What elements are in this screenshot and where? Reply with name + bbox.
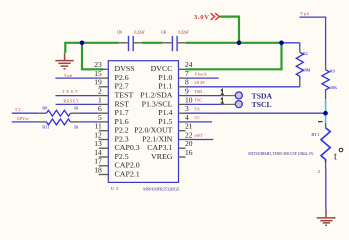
junction 3.0V rail bbox=[237, 41, 242, 46]
wire DVCC pin 24 green bbox=[186, 43, 282, 70]
svg-text:U3: U3 bbox=[111, 186, 119, 191]
wire main VCC rail segment left bbox=[65, 42, 118, 44]
pin stubs right side bbox=[179, 69, 186, 157]
svg-text:24: 24 bbox=[185, 60, 193, 69]
capacitor C10 leads bbox=[119, 42, 128, 44]
wire RT1 to ground bbox=[325, 168, 327, 209]
svg-text:6: 6 bbox=[98, 104, 102, 113]
wire pin 8 to R2 bbox=[186, 86, 300, 88]
svg-text:RESET: RESET bbox=[64, 99, 80, 103]
svg-text:P1.2/SDA: P1.2/SDA bbox=[140, 91, 173, 100]
thermistor RT1 bbox=[321, 123, 330, 168]
svg-text:TSD: TSD bbox=[195, 90, 203, 94]
svg-text:2848: 2848 bbox=[195, 81, 205, 85]
svg-text:P1.5: P1.5 bbox=[158, 117, 173, 126]
junction VCC to DVCC corner bbox=[279, 41, 284, 46]
svg-text:GPVcc: GPVcc bbox=[17, 117, 29, 121]
svg-text:P1.1: P1.1 bbox=[158, 82, 173, 91]
svg-text:CAP3.1: CAP3.1 bbox=[147, 143, 173, 152]
svg-text:RT1: RT1 bbox=[311, 132, 319, 137]
pin stubs left side bbox=[99, 69, 109, 174]
wire cyan net R9 to thermistor bbox=[325, 99, 327, 123]
wire pin 22 stub net bbox=[186, 139, 214, 141]
svg-text:R11: R11 bbox=[42, 125, 49, 130]
svg-text:P2.0/XOUT: P2.0/XOUT bbox=[134, 126, 173, 135]
svg-text:23: 23 bbox=[94, 60, 102, 69]
svg-text:16: 16 bbox=[185, 148, 193, 157]
junction DVSS branch bbox=[80, 41, 85, 46]
svg-text:10M: 10M bbox=[303, 68, 311, 73]
svg-text:MSP430FR2532RGE: MSP430FR2532RGE bbox=[143, 186, 180, 191]
svg-text:20K: 20K bbox=[330, 85, 338, 90]
pin names right column bbox=[134, 64, 173, 161]
label 1 connector TSCL bbox=[221, 98, 224, 103]
svg-text:CAP0.3: CAP0.3 bbox=[115, 143, 141, 152]
svg-text:C10: C10 bbox=[117, 29, 122, 34]
svg-text:11: 11 bbox=[95, 122, 102, 131]
svg-text:P1.3/SCL: P1.3/SCL bbox=[142, 99, 173, 108]
wire VCC rail drop to ground elbow bbox=[64, 42, 66, 53]
svg-text:R9: R9 bbox=[330, 69, 336, 74]
svg-text:P2.1/XIN: P2.1/XIN bbox=[142, 134, 173, 143]
pin marker 1 of RT1 bbox=[318, 121, 323, 123]
svg-text:TSCL: TSCL bbox=[252, 101, 272, 109]
wire GPVcc to R11 bbox=[12, 121, 39, 123]
svg-text:CAP2.1: CAP2.1 bbox=[115, 169, 141, 178]
svg-text:13: 13 bbox=[94, 139, 102, 148]
wire DVSS branch vertical bbox=[82, 43, 103, 70]
power port 3.0V chevron symbol bbox=[211, 13, 220, 20]
svg-text:t: t bbox=[334, 152, 337, 163]
svg-text:2: 2 bbox=[98, 87, 102, 96]
capacitor C10 plates bbox=[128, 36, 130, 51]
svg-text:0.22uF: 0.22uF bbox=[178, 29, 189, 34]
capacitor C36 plates bbox=[171, 36, 173, 51]
ground GND bottom right bbox=[317, 209, 336, 225]
wire 3.0V to main rail bbox=[220, 17, 239, 43]
wire T2 to R8 bbox=[12, 112, 39, 114]
svg-text:T2: T2 bbox=[15, 108, 21, 112]
svg-text:4: 4 bbox=[185, 113, 189, 122]
svg-text:5: 5 bbox=[98, 113, 102, 122]
svg-text:12: 12 bbox=[94, 130, 102, 139]
resistor R9 20K bbox=[322, 64, 329, 99]
svg-text:10: 10 bbox=[185, 95, 193, 104]
svg-text:1K: 1K bbox=[74, 125, 80, 130]
svg-text:1K: 1K bbox=[74, 106, 80, 111]
svg-text:P1.6: P1.6 bbox=[115, 117, 130, 126]
wire net TEST to pin 2 bbox=[55, 95, 98, 97]
wire pin 3 TS net to thermistor bbox=[186, 112, 326, 114]
svg-text:DVCC: DVCC bbox=[151, 64, 173, 73]
svg-text:14: 14 bbox=[94, 148, 102, 157]
junction TS net at thermistor bbox=[323, 111, 328, 116]
svg-text:P2.2: P2.2 bbox=[115, 126, 130, 135]
op-amp U3 MSP430 IC body bbox=[108, 61, 178, 183]
ground GND top-left bbox=[55, 53, 73, 69]
svg-text:VREG: VREG bbox=[151, 152, 173, 161]
svg-text:TSDA: TSDA bbox=[252, 93, 272, 101]
svg-text:P2.7: P2.7 bbox=[115, 82, 130, 91]
svg-text:15: 15 bbox=[94, 69, 102, 78]
svg-text:P1.0: P1.0 bbox=[158, 73, 173, 82]
svg-text:P2.5: P2.5 bbox=[115, 152, 130, 161]
svg-text:P2.6: P2.6 bbox=[115, 73, 130, 82]
wire VCC to R2 bbox=[282, 42, 300, 44]
svg-text:8: 8 bbox=[185, 78, 189, 87]
pin numbers left bbox=[94, 60, 102, 174]
wire net RESET to pin 1 bbox=[56, 103, 99, 105]
pin names left column bbox=[115, 64, 141, 178]
wire pin 4 stub net bbox=[186, 121, 213, 123]
wire pin 7 stub net bbox=[186, 77, 219, 79]
wire VCC rail right of C36 bbox=[186, 42, 282, 44]
svg-text:P1.4: P1.4 bbox=[158, 108, 173, 117]
svg-text:19: 19 bbox=[94, 78, 102, 87]
svg-text:1: 1 bbox=[98, 95, 102, 104]
svg-text:TS: TS bbox=[195, 108, 200, 112]
svg-text:CC: CC bbox=[195, 116, 201, 120]
svg-text:2: 2 bbox=[318, 169, 320, 174]
svg-text:9: 9 bbox=[185, 87, 189, 96]
wire VCC rail between capacitors bbox=[142, 42, 163, 44]
svg-text:0.22uF: 0.22uF bbox=[134, 29, 145, 34]
pin numbers right bbox=[185, 60, 193, 157]
connector pin 1 stub TSDA bbox=[221, 95, 235, 97]
wire Vpb to R9 bbox=[299, 17, 325, 64]
svg-text:TEST: TEST bbox=[115, 91, 134, 100]
svg-text:Vpb: Vpb bbox=[64, 74, 72, 78]
svg-text:7: 7 bbox=[185, 69, 189, 78]
svg-text:17: 17 bbox=[94, 157, 102, 166]
svg-text:21: 21 bbox=[185, 122, 193, 131]
svg-text:TSC: TSC bbox=[195, 99, 203, 103]
svg-text:R8: R8 bbox=[42, 106, 48, 111]
svg-text:eWT: eWT bbox=[195, 134, 204, 138]
svg-text:20: 20 bbox=[185, 139, 193, 148]
svg-text:R2: R2 bbox=[303, 51, 308, 56]
wire pin 10 to TSCL terminal bbox=[186, 103, 222, 105]
svg-text:RST: RST bbox=[115, 99, 130, 108]
resistor R8 1K bbox=[39, 110, 99, 116]
wire pin 9 to TSDA terminal bbox=[186, 95, 222, 97]
svg-text:P1.7: P1.7 bbox=[115, 108, 130, 117]
resistor R2 10M pull-up bbox=[296, 43, 303, 87]
svg-text:Vpb: Vpb bbox=[300, 12, 309, 16]
label 1 connector TSDA bbox=[221, 89, 224, 94]
svg-text:P2.3: P2.3 bbox=[115, 134, 130, 143]
svg-text:CAP2.0: CAP2.0 bbox=[115, 161, 141, 170]
svg-text:3.0V: 3.0V bbox=[194, 14, 209, 21]
svg-text:22: 22 bbox=[185, 130, 193, 139]
svg-text:3: 3 bbox=[185, 104, 189, 113]
svg-text:18: 18 bbox=[94, 165, 102, 174]
wire net Vpb to pin 15 bbox=[55, 77, 98, 79]
svg-text:Vback: Vback bbox=[195, 72, 207, 76]
svg-text:C36: C36 bbox=[161, 29, 166, 34]
terminal circle TSCL bbox=[235, 101, 242, 108]
capacitor C36 leads bbox=[163, 42, 172, 44]
resistor R11 1K bbox=[39, 119, 99, 125]
terminal circle TSDA bbox=[235, 92, 242, 99]
svg-text:DVSS: DVSS bbox=[115, 64, 135, 73]
connector pin 1 stub TSCL bbox=[221, 103, 235, 105]
